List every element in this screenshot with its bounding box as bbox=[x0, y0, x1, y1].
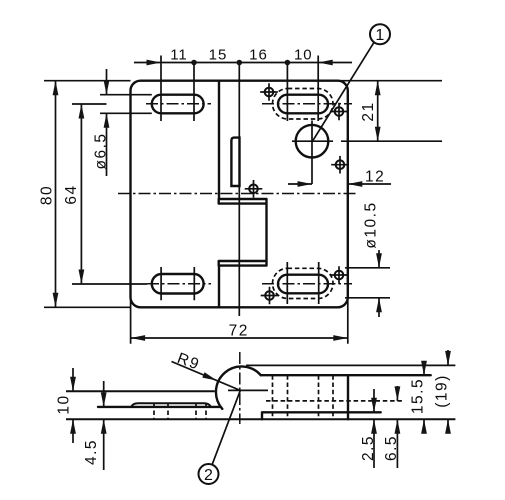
svg-text:(19): (19) bbox=[434, 374, 451, 408]
svg-text:10: 10 bbox=[294, 47, 313, 64]
svg-text:16: 16 bbox=[249, 47, 268, 64]
svg-text:72: 72 bbox=[229, 323, 249, 340]
svg-text:ø10.5: ø10.5 bbox=[363, 201, 380, 248]
svg-text:21: 21 bbox=[360, 101, 377, 121]
svg-text:6.5: 6.5 bbox=[383, 435, 400, 461]
svg-text:12: 12 bbox=[365, 169, 385, 186]
svg-text:2.5: 2.5 bbox=[360, 435, 377, 461]
svg-text:15: 15 bbox=[209, 47, 228, 64]
svg-text:15.5: 15.5 bbox=[410, 378, 427, 414]
svg-text:11: 11 bbox=[170, 47, 188, 64]
svg-text:64: 64 bbox=[63, 184, 80, 204]
svg-text:2: 2 bbox=[204, 467, 213, 484]
svg-text:1: 1 bbox=[375, 27, 384, 44]
svg-text:10: 10 bbox=[56, 394, 73, 414]
svg-text:4.5: 4.5 bbox=[83, 439, 100, 465]
svg-text:ø6.5: ø6.5 bbox=[93, 132, 110, 169]
svg-text:80: 80 bbox=[39, 185, 56, 205]
